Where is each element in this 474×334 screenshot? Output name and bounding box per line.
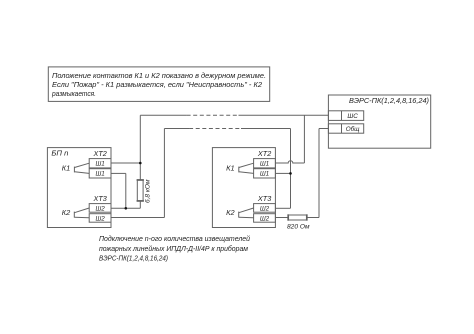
svg-text:Ш2: Ш2 <box>260 205 270 212</box>
svg-text:БП n: БП n <box>51 148 68 157</box>
svg-text:ХТ2: ХТ2 <box>93 151 107 158</box>
svg-text:К1: К1 <box>226 166 235 173</box>
svg-text:ШС: ШС <box>347 113 358 120</box>
svg-text:Ш1: Ш1 <box>95 171 104 178</box>
svg-text:Ш1: Ш1 <box>260 161 269 168</box>
svg-text:Ш2: Ш2 <box>95 215 105 222</box>
svg-text:ВЭРС-ПК(1,2,4,8,16,24): ВЭРС-ПК(1,2,4,8,16,24) <box>99 254 168 263</box>
svg-text:ВЭРС-ПК(1,2,4,8,16,24): ВЭРС-ПК(1,2,4,8,16,24) <box>349 96 429 105</box>
svg-text:К2: К2 <box>62 210 71 217</box>
svg-text:Ш2: Ш2 <box>260 215 270 222</box>
svg-text:ХТ2: ХТ2 <box>257 151 271 158</box>
svg-text:Положение контактов К1 и К2 по: Положение контактов К1 и К2 показано в д… <box>52 71 266 80</box>
svg-text:К2: К2 <box>226 210 235 217</box>
svg-text:ХТ3: ХТ3 <box>257 196 271 203</box>
svg-text:К1: К1 <box>62 166 71 173</box>
svg-text:Если "Пожар" - К1 размыкается,: Если "Пожар" - К1 размыкается, если "Неи… <box>52 80 262 89</box>
svg-text:размыкается.: размыкается. <box>51 89 96 98</box>
svg-text:Ш1: Ш1 <box>260 171 269 178</box>
svg-text:Ш2: Ш2 <box>95 205 105 212</box>
svg-text:Ш1: Ш1 <box>95 161 104 168</box>
svg-text:Общ: Общ <box>346 125 360 133</box>
svg-text:Подключение n-ого количества и: Подключение n-ого количества извещателей <box>99 234 250 243</box>
svg-text:ХТ3: ХТ3 <box>93 196 107 203</box>
svg-text:пожарных линейных ИПДЛ-Д-II/4Р: пожарных линейных ИПДЛ-Д-II/4Р к прибора… <box>99 244 248 253</box>
svg-text:820 Ом: 820 Ом <box>287 224 310 231</box>
svg-text:6,8 кОм: 6,8 кОм <box>144 179 151 203</box>
